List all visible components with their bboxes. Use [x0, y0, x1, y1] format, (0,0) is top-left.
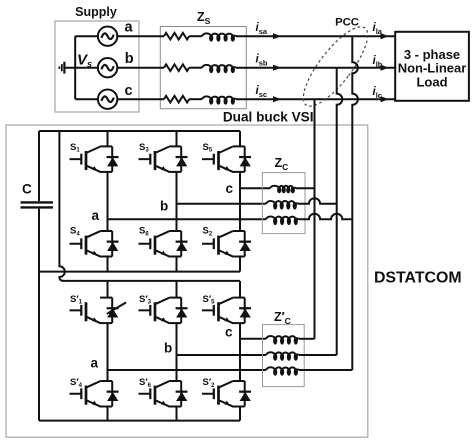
AC source phase b [98, 58, 117, 77]
wire leg2 upper top [176, 131, 178, 146]
capacitor C [21, 202, 54, 207]
wire jog DC+ down to lower bridge with hop [59, 131, 64, 281]
wire lower bridge top bus [64, 280, 240, 282]
wire Zc b to rail with hop [298, 198, 337, 204]
load box 3-phase non-linear load [395, 32, 469, 101]
resistor Rsa [164, 33, 189, 40]
wire leg2 lower bottom [176, 407, 178, 421]
wire leg3 lower middle [239, 323, 241, 381]
transistor S4 [70, 231, 113, 257]
inductor Z'c phase c [266, 336, 299, 339]
inductor Zc phase c [270, 186, 296, 189]
AC source phase a [98, 27, 117, 46]
svg-text:b: b [160, 199, 168, 214]
wire DC negative bus (upper bridge bottom) [39, 271, 240, 273]
wire phase b to load [236, 67, 395, 69]
transistor S'4 [70, 381, 113, 407]
wire [189, 35, 202, 37]
wire rail phase c (PCC to Zc and Z'c) [314, 99, 316, 339]
inductor Lsb [202, 65, 236, 68]
transistor S'2 [202, 381, 245, 407]
wire Z'c a to rail corner [299, 369, 352, 371]
coupling impedance Zc box [262, 173, 305, 234]
inductor Lsa [202, 33, 236, 36]
resistor Rsb [164, 64, 189, 71]
wire Zc a to rail with hops [299, 214, 352, 220]
wire leg3 upper middle [239, 172, 241, 231]
wire [189, 67, 202, 69]
wire leg2 lower middle [176, 323, 178, 381]
wire Zc c to rail [296, 187, 315, 189]
wire leg3 upper top [239, 131, 241, 146]
transistor S6 [139, 231, 182, 257]
svg-text:c: c [225, 324, 233, 339]
current isb arrow [273, 65, 281, 71]
transistor S'3 [139, 298, 182, 324]
current ilc arrow [381, 96, 389, 102]
inductor Z'c phase b [266, 352, 299, 355]
wire phase b lower to Z'c [177, 354, 267, 356]
wire phase c lower to Z'c [240, 338, 266, 340]
wire leg3 upper bottom [239, 257, 241, 272]
svg-text:a: a [125, 19, 134, 35]
svg-text:C: C [22, 182, 32, 197]
wire cap bottom to lower bus [38, 209, 40, 421]
current isc arrow [273, 96, 281, 102]
svg-text:b: b [125, 51, 134, 67]
wire rail phase a with hops over lines b and c [352, 36, 358, 370]
wire leg3 lower bottom [239, 407, 241, 421]
transistor S3 [139, 146, 182, 172]
wire leg1 upper middle [107, 172, 109, 231]
wire phase a source to resistor [117, 35, 164, 37]
svg-text:Non-Linear: Non-Linear [398, 61, 467, 76]
wire leg1 lower top [107, 281, 109, 298]
current ila arrow [381, 33, 389, 39]
wire phase c source to resistor [117, 98, 164, 100]
wire cap top [38, 131, 40, 201]
wire leg1 upper bottom [107, 257, 109, 272]
coupling impedance Z'c box [263, 325, 305, 387]
PCC dashed ellipse [293, 18, 377, 114]
wire leg3 lower top [239, 281, 241, 298]
wire leg2 upper bottom [176, 257, 178, 272]
transistor S2 [202, 231, 245, 257]
svg-text:Supply: Supply [75, 5, 117, 19]
current ilb arrow [381, 65, 389, 71]
svg-text:c: c [125, 83, 133, 99]
svg-text:a: a [92, 208, 100, 223]
svg-text:PCC: PCC [335, 17, 359, 29]
current isa arrow [273, 33, 281, 39]
wire leg2 upper middle [176, 172, 178, 231]
wire phase a stub [75, 35, 98, 37]
wire top DC bus [39, 130, 240, 132]
wire Z'c c to rail corner [299, 338, 315, 340]
svg-text:b: b [164, 341, 172, 356]
wire rail phase b with hop over line c [337, 68, 343, 355]
supply left bus wire [74, 36, 76, 99]
wire lower bridge bottom bus [39, 420, 240, 422]
wire leg1 lower bottom [107, 407, 109, 421]
wire phase a lower to Z'c [108, 369, 267, 371]
wire phase b upper to Zc [177, 203, 267, 205]
transistor S1 [70, 146, 113, 172]
svg-text:Load: Load [416, 75, 447, 90]
svg-text:DSTATCOM: DSTATCOM [374, 269, 462, 286]
svg-text:Dual buck VSI: Dual buck VSI [223, 110, 314, 125]
inductor Zc phase a [266, 217, 299, 220]
svg-text:c: c [226, 181, 234, 196]
transistor S'5 [202, 298, 245, 324]
AC source phase c [98, 90, 117, 109]
impedance block Zs box [160, 27, 246, 109]
wire [189, 98, 202, 100]
DSTATCOM outer box [6, 125, 368, 437]
wire phase c upper to Zc [240, 187, 270, 189]
wire phase b source to resistor [117, 67, 164, 69]
svg-text:a: a [91, 356, 99, 371]
transistor S'1 [70, 298, 113, 324]
wire phase c stub [75, 98, 98, 100]
wire leg1 upper top [107, 131, 109, 146]
resistor Rsc [164, 96, 189, 103]
wire phase a to load [236, 35, 395, 37]
transistor S5 [202, 146, 245, 172]
wire phase a upper to Zc [108, 218, 267, 220]
supply box [55, 21, 139, 112]
transistor S'6 [139, 381, 182, 407]
wire phase c to load [236, 98, 395, 100]
inductor Lsc [202, 96, 236, 99]
inductor Zc phase b [266, 201, 298, 204]
inductor Z'c phase a [266, 367, 299, 370]
wire Z'c b to rail corner [299, 354, 337, 356]
wire leg1 lower middle [107, 323, 109, 381]
wire leg2 lower top [176, 281, 178, 298]
ground [59, 62, 98, 74]
